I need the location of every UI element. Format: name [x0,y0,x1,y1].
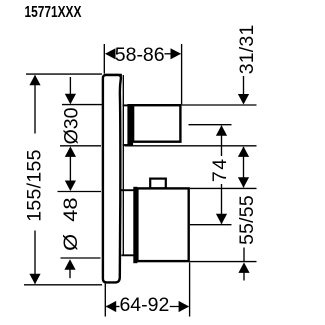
svg-text:64-92: 64-92 [119,294,169,316]
svg-text:15771XXX: 15771XXX [24,2,81,20]
svg-text:31/31: 31/31 [236,24,258,74]
svg-text:Ø30: Ø30 [60,107,82,144]
svg-text:58-86: 58-86 [115,44,165,66]
svg-text:74: 74 [209,157,231,182]
svg-text:155/155: 155/155 [24,149,46,222]
svg-text:Ø 48: Ø 48 [60,198,82,251]
svg-text:55/55: 55/55 [236,195,258,245]
